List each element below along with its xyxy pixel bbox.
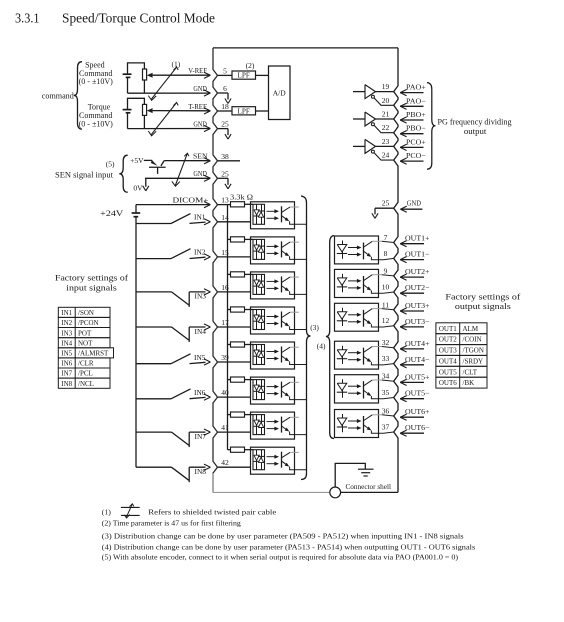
svg-text:GND: GND bbox=[407, 199, 422, 208]
wire external PAO+ bbox=[400, 92, 423, 94]
svg-text:Connector shell: Connector shell bbox=[346, 482, 392, 491]
wire OUT4+ collector to pin bbox=[372, 346, 382, 348]
wire R7 to optocoupler bbox=[245, 414, 254, 416]
inverting output bubble bbox=[371, 150, 374, 153]
optocoupler PC4 input bbox=[251, 307, 295, 334]
svg-text:IN7: IN7 bbox=[61, 370, 72, 378]
wire external OUT2− bbox=[400, 292, 424, 294]
wire V-REF to pin 5 bbox=[153, 74, 210, 76]
optocoupler PC10 output OUT2 bbox=[335, 269, 379, 297]
wire pin13 to R1 bbox=[218, 204, 231, 206]
resistor R2 3.3k bbox=[231, 237, 245, 242]
switch S7 input IN7 bbox=[136, 431, 172, 433]
connector shell circle bbox=[330, 487, 341, 498]
wire LPF2 to A/D bbox=[256, 110, 269, 112]
svg-text:command: command bbox=[42, 91, 74, 100]
optocoupler PC14 output OUT6 bbox=[335, 410, 379, 438]
svg-text:IN2: IN2 bbox=[194, 248, 206, 257]
optocoupler PC8 input bbox=[251, 447, 295, 474]
potentiometer RV2 torque bbox=[143, 104, 147, 115]
svg-text:T-REF: T-REF bbox=[188, 102, 207, 111]
switch S8 input IN8 bbox=[136, 466, 172, 468]
svg-text:OUT2−: OUT2− bbox=[405, 283, 430, 292]
svg-text:IN4: IN4 bbox=[61, 339, 72, 347]
wire IN3 pin to optocoupler bbox=[218, 291, 251, 293]
svg-text:/SON: /SON bbox=[78, 309, 94, 317]
wire bus tap to R8 bbox=[228, 449, 231, 451]
switch S4 input IN4 bbox=[136, 326, 172, 328]
transistor Q1 SEN input clamp bbox=[144, 159, 152, 161]
svg-text:20: 20 bbox=[382, 96, 390, 105]
svg-text:33: 33 bbox=[382, 354, 390, 363]
wire R4 to optocoupler bbox=[245, 309, 254, 311]
wire OUT6- emitter to pin bbox=[371, 431, 393, 434]
svg-text:24: 24 bbox=[382, 151, 390, 160]
wire R3 to optocoupler bbox=[245, 273, 254, 275]
brace PG frequency dividing output bbox=[427, 83, 436, 170]
svg-text:output: output bbox=[464, 127, 487, 136]
svg-text:Speed/Torque Control Mode: Speed/Torque Control Mode bbox=[62, 10, 215, 25]
svg-text:/CLT: /CLT bbox=[463, 368, 478, 376]
svg-text:3.3.1: 3.3.1 bbox=[15, 10, 40, 25]
svg-text:34: 34 bbox=[382, 372, 390, 381]
line driver U4 PG output bbox=[353, 145, 365, 147]
wire LPF1 to A/D bbox=[256, 74, 269, 76]
wiper arrow RV2 bbox=[147, 108, 153, 113]
switch S1 input IN1 bbox=[136, 223, 171, 225]
wire shell to right spine bbox=[341, 491, 398, 493]
svg-text:/TGON: /TGON bbox=[463, 347, 484, 355]
wire driver to - pin bbox=[374, 125, 394, 132]
svg-text:OUT4+: OUT4+ bbox=[405, 339, 430, 348]
table row IN5 /ALMRST bbox=[58, 348, 113, 358]
svg-text:38: 38 bbox=[221, 152, 229, 161]
wire OUT3- emitter to pin bbox=[371, 324, 393, 327]
svg-text:7: 7 bbox=[384, 233, 388, 242]
wire IN7 pin to optocoupler bbox=[218, 431, 251, 433]
ground arrow 0V bbox=[145, 178, 147, 187]
svg-text:9: 9 bbox=[384, 266, 388, 275]
svg-text:GND: GND bbox=[193, 169, 207, 178]
connector left spine with pin notches (CN1 left side) bbox=[213, 48, 218, 493]
brace (3) input group bbox=[301, 196, 311, 480]
svg-text:OUT6−: OUT6− bbox=[405, 423, 430, 432]
svg-text:PG frequency dividing: PG frequency dividing bbox=[438, 118, 512, 127]
table row OUT4 /SRDY bbox=[436, 355, 487, 366]
svg-text:IN5: IN5 bbox=[194, 353, 206, 362]
svg-text:IN1: IN1 bbox=[194, 213, 206, 222]
svg-text:A/D: A/D bbox=[273, 88, 287, 97]
svg-text:22: 22 bbox=[382, 123, 390, 132]
wire IN6 to pin bbox=[190, 397, 206, 398]
svg-text:+24V: +24V bbox=[100, 209, 123, 218]
svg-text:(2) Time parameter is 47 us fo: (2) Time parameter is 47 us for first fi… bbox=[102, 519, 241, 528]
svg-text:OUT6+: OUT6+ bbox=[405, 407, 430, 416]
svg-text:output signals: output signals bbox=[455, 301, 511, 311]
battery V1 speed command source bbox=[123, 73, 132, 75]
svg-text:PCO−: PCO− bbox=[406, 151, 426, 160]
wire GND speed to pin 6 bbox=[128, 92, 210, 94]
ground arrow internal (left pin) bbox=[218, 92, 229, 94]
shielded twisted pair symbol SEN bbox=[175, 154, 187, 186]
wire torque source loop bbox=[128, 98, 145, 109]
wire bus tap to R7 bbox=[228, 414, 231, 416]
switch S2 input IN2 bbox=[136, 258, 171, 260]
wire OUT6+ collector to pin bbox=[372, 414, 382, 416]
wire GND torque to pin 25 bbox=[128, 128, 210, 130]
inverting output bubble bbox=[371, 123, 374, 126]
svg-text:25: 25 bbox=[221, 120, 229, 129]
resistor R4 3.3k bbox=[231, 307, 245, 312]
svg-text:(2): (2) bbox=[246, 61, 255, 70]
brace (4) output group bbox=[326, 236, 334, 439]
wire OUT4- emitter to pin bbox=[371, 362, 393, 365]
svg-text:3.3k Ω: 3.3k Ω bbox=[230, 193, 253, 201]
wire SEN to pin 38 bbox=[164, 160, 209, 162]
svg-text:DICOM+: DICOM+ bbox=[173, 196, 210, 205]
wire IN2 pin to optocoupler bbox=[218, 256, 251, 258]
brace command group bbox=[74, 62, 82, 129]
svg-text:21: 21 bbox=[382, 110, 390, 119]
svg-text:IN8: IN8 bbox=[195, 467, 207, 476]
wire IN3 to pin bbox=[188, 292, 190, 307]
resistor R1 3.3k bbox=[231, 202, 245, 207]
svg-text:IN8: IN8 bbox=[61, 380, 72, 388]
inverting output bubble bbox=[371, 95, 374, 98]
wire external OUT3+ bbox=[400, 310, 424, 312]
wire external PBO− bbox=[400, 133, 423, 135]
wire external GND arrow bbox=[400, 208, 422, 210]
table row IN1 /SON bbox=[58, 307, 110, 317]
wire external OUT6− bbox=[400, 432, 424, 434]
wire OUT1- emitter to pin bbox=[371, 257, 393, 260]
battery V2 torque command source bbox=[123, 109, 132, 111]
svg-text:0V: 0V bbox=[133, 184, 143, 193]
svg-text:OUT3−: OUT3− bbox=[405, 317, 430, 326]
svg-text:IN4: IN4 bbox=[195, 327, 207, 336]
wire connector top edge bbox=[213, 47, 398, 49]
wire OUT3+ collector to pin bbox=[372, 308, 382, 310]
wire OUT5+ collector to pin bbox=[372, 379, 382, 381]
connector right spine with pin notches (CN1 right side) bbox=[394, 48, 398, 493]
svg-text:OUT1−: OUT1− bbox=[405, 250, 430, 259]
svg-text:19: 19 bbox=[382, 82, 390, 91]
wire driver to - pin bbox=[374, 153, 394, 160]
optocoupler PC1 input bbox=[251, 202, 295, 229]
wire IN4 pin to optocoupler bbox=[218, 326, 251, 328]
svg-text:GND: GND bbox=[193, 119, 207, 128]
svg-text:(4) Distribution change can be: (4) Distribution change can be done by u… bbox=[102, 543, 475, 552]
optocoupler PC7 input bbox=[251, 412, 295, 439]
svg-text:OUT3+: OUT3+ bbox=[405, 301, 430, 310]
svg-text:V-REF: V-REF bbox=[188, 66, 207, 75]
wire external OUT4+ bbox=[400, 348, 424, 350]
wire R5 to optocoupler bbox=[245, 344, 254, 346]
svg-text:36: 36 bbox=[382, 407, 390, 416]
line driver U3 PG output bbox=[353, 118, 365, 120]
svg-text:/CLR: /CLR bbox=[78, 360, 94, 368]
svg-text:IN7: IN7 bbox=[195, 432, 207, 441]
optocoupler PC6 input bbox=[251, 377, 295, 404]
svg-text:12: 12 bbox=[382, 316, 390, 325]
switch S5 input IN5 bbox=[136, 363, 171, 365]
wire IN6 pin to optocoupler bbox=[218, 396, 251, 398]
switch S3 input IN3 bbox=[136, 291, 172, 293]
wire shell to earth ground bbox=[335, 463, 365, 487]
svg-text:35: 35 bbox=[382, 388, 390, 397]
wire DICOM+ internal bus bbox=[227, 205, 229, 450]
svg-text:(3) Distribution change can be: (3) Distribution change can be done by u… bbox=[102, 532, 464, 541]
wire IN4 to pin bbox=[188, 327, 190, 342]
svg-text:/SRDY: /SRDY bbox=[463, 357, 484, 365]
svg-text:OUT4−: OUT4− bbox=[405, 355, 430, 364]
svg-text:(3): (3) bbox=[310, 323, 319, 332]
optocoupler PC11 output OUT3 bbox=[335, 303, 379, 331]
svg-text:IN3: IN3 bbox=[195, 292, 207, 301]
resistor R8 3.3k bbox=[231, 447, 245, 452]
switch S6 input IN6 bbox=[136, 398, 171, 400]
shielded twisted pair symbol torque bbox=[151, 103, 176, 135]
svg-text:PAO−: PAO− bbox=[406, 96, 426, 105]
wire IN8 to pin bbox=[188, 467, 190, 482]
table row OUT5 /CLT bbox=[436, 366, 487, 377]
svg-text:ALM: ALM bbox=[463, 325, 479, 333]
wire external PAO− bbox=[400, 105, 423, 107]
wire battery to DICOM+ pin 13 bbox=[135, 205, 137, 213]
optocoupler PC9 output OUT1 bbox=[335, 236, 379, 264]
resistor R7 3.3k bbox=[231, 412, 245, 417]
brace SEN group bbox=[119, 155, 127, 192]
svg-text:OUT3: OUT3 bbox=[439, 347, 457, 355]
svg-text:6: 6 bbox=[223, 84, 227, 93]
wire external OUT1+ bbox=[400, 243, 424, 245]
wire bus tap to R4 bbox=[228, 309, 231, 311]
table row OUT1 ALM bbox=[436, 323, 487, 334]
svg-text:PBO−: PBO− bbox=[406, 124, 426, 133]
svg-text:Factory settings of: Factory settings of bbox=[55, 272, 128, 282]
svg-text:(0 - ±10V): (0 - ±10V) bbox=[79, 119, 113, 128]
resistor R6 3.3k bbox=[231, 377, 245, 382]
ground arrow internal (left pin) bbox=[218, 177, 229, 179]
svg-text:SEN signal input: SEN signal input bbox=[55, 170, 114, 179]
earth ground symbol bbox=[358, 468, 374, 470]
svg-text:NOT: NOT bbox=[78, 339, 93, 347]
wire IN8 pin to optocoupler bbox=[218, 466, 251, 468]
wire GND 0V to pin 25 bbox=[145, 177, 209, 179]
svg-text:SEN: SEN bbox=[193, 152, 208, 161]
svg-text:11: 11 bbox=[382, 300, 389, 309]
svg-text:/ALMRST: /ALMRST bbox=[78, 350, 109, 358]
wire OUT5- emitter to pin bbox=[371, 396, 393, 399]
table row IN7 /PCL bbox=[58, 368, 110, 378]
table row OUT2 /COIN bbox=[436, 334, 487, 345]
wire external OUT4− bbox=[400, 364, 424, 366]
svg-text:OUT4: OUT4 bbox=[439, 357, 457, 365]
svg-text:Factory settings of: Factory settings of bbox=[445, 291, 520, 301]
svg-text:OUT5: OUT5 bbox=[439, 368, 457, 376]
wire bus tap to R3 bbox=[228, 273, 231, 275]
wire R6 to optocoupler bbox=[245, 379, 254, 381]
svg-text:/COIN: /COIN bbox=[463, 336, 482, 344]
svg-text:PBO+: PBO+ bbox=[406, 110, 426, 119]
wire external OUT2+ bbox=[400, 276, 424, 278]
resistor R3 3.3k bbox=[231, 272, 245, 277]
wire OUT1+ collector to pin bbox=[372, 240, 382, 242]
svg-text:(5) With absolute encoder, con: (5) With absolute encoder, connect to it… bbox=[102, 552, 459, 561]
table row IN6 /CLR bbox=[58, 358, 110, 368]
svg-text:(1): (1) bbox=[172, 59, 181, 68]
wire external OUT3− bbox=[400, 326, 424, 328]
wire T-REF to pin 18 bbox=[153, 110, 210, 112]
svg-text:(4): (4) bbox=[317, 342, 326, 351]
svg-text:OUT1+: OUT1+ bbox=[405, 234, 430, 243]
wire IN5 to pin bbox=[190, 362, 206, 363]
svg-text:/PCL: /PCL bbox=[78, 370, 93, 378]
svg-text:(0 - ±10V): (0 - ±10V) bbox=[79, 77, 113, 86]
svg-text:OUT5+: OUT5+ bbox=[405, 372, 430, 381]
svg-text:5: 5 bbox=[223, 66, 227, 75]
table row IN4 NOT bbox=[58, 338, 110, 348]
wire external OUT1− bbox=[400, 259, 424, 261]
svg-text:/NCL: /NCL bbox=[78, 380, 94, 388]
converter block U1 A/D bbox=[269, 66, 291, 120]
svg-text:10: 10 bbox=[382, 283, 390, 292]
svg-text:+5V: +5V bbox=[130, 156, 144, 165]
wire IN1 to pin bbox=[190, 222, 206, 223]
resistor R5 3.3k bbox=[231, 342, 245, 347]
svg-text:42: 42 bbox=[221, 458, 229, 467]
svg-text:LPF: LPF bbox=[238, 107, 250, 115]
svg-text:GND: GND bbox=[193, 84, 207, 93]
optocoupler PC13 output OUT5 bbox=[335, 375, 379, 403]
svg-text:PCO+: PCO+ bbox=[406, 137, 426, 146]
svg-text:OUT1: OUT1 bbox=[439, 325, 457, 333]
wire R2 to optocoupler bbox=[245, 238, 254, 240]
optocoupler PC12 output OUT4 bbox=[335, 341, 379, 369]
svg-text:OUT5−: OUT5− bbox=[405, 389, 430, 398]
svg-text:(1): (1) bbox=[102, 508, 111, 517]
table row IN2 /PCON bbox=[58, 317, 110, 327]
wire speed source loop bbox=[128, 63, 145, 74]
wire left spine to shell bbox=[212, 473, 214, 492]
svg-text:LPF: LPF bbox=[238, 72, 250, 80]
wire SEN internal stub bbox=[218, 160, 241, 162]
svg-text:OUT6: OUT6 bbox=[439, 379, 457, 387]
svg-text:(5): (5) bbox=[106, 160, 115, 169]
svg-text:25: 25 bbox=[221, 169, 229, 178]
wire OUT2- emitter to pin bbox=[371, 291, 393, 294]
svg-text:23: 23 bbox=[382, 137, 390, 146]
wire bus tap to R5 bbox=[228, 344, 231, 346]
wire external OUT5+ bbox=[400, 381, 424, 383]
wire IN2 to pin bbox=[190, 257, 206, 258]
svg-text:IN5: IN5 bbox=[61, 350, 72, 358]
wire OUT2+ collector to pin bbox=[372, 274, 382, 276]
svg-text:IN3: IN3 bbox=[61, 329, 72, 337]
svg-text:IN2: IN2 bbox=[61, 319, 72, 327]
wire bus tap to R6 bbox=[228, 379, 231, 381]
svg-text:input signals: input signals bbox=[66, 282, 117, 292]
svg-text:/PCON: /PCON bbox=[78, 319, 99, 327]
svg-text:25: 25 bbox=[382, 199, 390, 208]
wire R1 to optocoupler bbox=[245, 203, 254, 205]
wire driver to - pin bbox=[374, 98, 394, 105]
svg-text:Refers to shielded twisted pai: Refers to shielded twisted pair cable bbox=[148, 508, 277, 517]
wire IN5 pin to optocoupler bbox=[218, 361, 251, 363]
potentiometer RV1 speed bbox=[143, 69, 147, 80]
optocoupler PC3 input bbox=[251, 272, 295, 299]
wire IN7 to pin bbox=[188, 432, 190, 447]
wire GND pin 25 right bbox=[375, 207, 394, 209]
line driver U2 PG output bbox=[353, 91, 365, 93]
wire IN1 pin to optocoupler bbox=[218, 221, 251, 223]
svg-text:32: 32 bbox=[382, 338, 390, 347]
wire external OUT6+ bbox=[400, 416, 424, 418]
wire driver to + pin bbox=[376, 118, 394, 120]
wire bus tap to R2 bbox=[228, 238, 231, 240]
table row OUT6 /BK bbox=[436, 377, 487, 388]
wire R8 to optocoupler bbox=[245, 449, 254, 451]
svg-text:IN1: IN1 bbox=[61, 309, 72, 317]
wire driver to + pin bbox=[376, 91, 394, 93]
optocoupler PC2 input bbox=[251, 237, 295, 264]
table row OUT3 /TGON bbox=[436, 345, 487, 356]
svg-text:OUT2: OUT2 bbox=[439, 336, 457, 344]
table row IN3 POT bbox=[58, 328, 110, 338]
table row IN8 /NCL bbox=[58, 378, 110, 388]
svg-text:IN6: IN6 bbox=[61, 360, 72, 368]
wire external PCO+ bbox=[400, 146, 423, 148]
svg-text:13: 13 bbox=[221, 196, 229, 205]
ground arrow pin 25 right bbox=[372, 213, 375, 218]
wire external PBO+ bbox=[400, 119, 423, 121]
svg-text:37: 37 bbox=[382, 423, 390, 432]
wiper arrow RV1 bbox=[147, 73, 153, 78]
wire driver to + pin bbox=[376, 145, 394, 147]
wire external PCO− bbox=[400, 160, 423, 162]
wire external OUT5− bbox=[400, 398, 424, 400]
svg-text:POT: POT bbox=[78, 329, 92, 337]
wire +24V bus vertical bbox=[135, 217, 137, 468]
optocoupler PC5 input bbox=[251, 342, 295, 369]
shielded twisted pair symbol (1) speed bbox=[151, 67, 176, 99]
svg-text:8: 8 bbox=[384, 249, 388, 258]
filter block LPF2 bbox=[218, 110, 233, 112]
battery V3 +24V supply bbox=[132, 212, 141, 214]
svg-text:OUT2+: OUT2+ bbox=[405, 267, 430, 276]
ground arrow internal (left pin) bbox=[218, 128, 229, 130]
svg-text:IN6: IN6 bbox=[194, 388, 206, 397]
svg-text:PAO+: PAO+ bbox=[406, 83, 426, 92]
svg-text:/BK: /BK bbox=[463, 379, 475, 387]
filter block LPF1 bbox=[218, 74, 233, 76]
